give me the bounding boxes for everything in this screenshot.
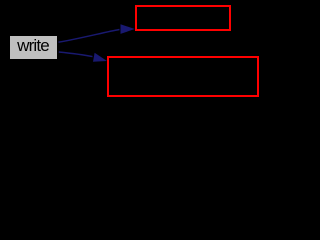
wire edges svg: [0, 0, 264, 103]
arrowhead 1: [121, 24, 135, 34]
node write: [10, 36, 57, 59]
arrowhead 2: [93, 53, 107, 62]
wire write to node B1: [59, 30, 120, 43]
node B1 red box: [135, 5, 231, 31]
wire write to node B2: [59, 52, 93, 57]
node B2 red box: [107, 56, 259, 98]
